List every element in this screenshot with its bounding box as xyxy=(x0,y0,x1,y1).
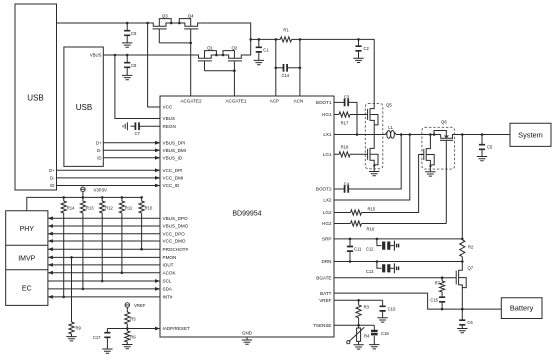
label pin PROCHOT# xyxy=(163,247,189,252)
svg-text:R12: R12 xyxy=(105,206,113,211)
wire VCC_DMI xyxy=(57,176,161,180)
svg-text:R16: R16 xyxy=(367,227,375,232)
wire R1 to ACN node xyxy=(292,38,300,40)
capacitor C7 on REGN xyxy=(123,122,160,136)
svg-text:D-: D- xyxy=(97,148,102,153)
wire Q4 output to node A xyxy=(200,23,251,39)
capacitor C17 xyxy=(93,329,111,350)
block: PHY / IMVP / EC controller stack xyxy=(6,211,48,306)
capacitor C5 xyxy=(479,135,493,157)
transistor Q5 high-side FET xyxy=(368,103,378,135)
wire sense riser xyxy=(461,135,463,239)
svg-text:Q5: Q5 xyxy=(386,103,392,108)
node: R13 to SDA xyxy=(82,288,85,291)
label D- pin of USB block xyxy=(97,148,102,153)
label Q6 xyxy=(441,120,447,125)
wire USB host 5V rail xyxy=(57,22,151,24)
node: C11 top junction xyxy=(349,238,352,241)
label D- pin of USB host xyxy=(50,175,55,180)
label pin VBUS_ID xyxy=(163,156,183,161)
wire Q1-Q2 link xyxy=(216,54,223,56)
node: R7/C15 bottom junction xyxy=(441,308,444,311)
wire Q3 gate lead xyxy=(158,29,160,43)
svg-text:D+: D+ xyxy=(96,140,102,145)
svg-text:ACGATE2: ACGATE2 xyxy=(180,98,202,103)
wire BGATE line xyxy=(334,277,456,279)
resistor R3 xyxy=(356,300,370,325)
transistor Q2 xyxy=(223,45,244,61)
resistor R16 on HG2 xyxy=(334,221,446,232)
svg-text:HG1: HG1 xyxy=(322,112,332,117)
svg-text:C4: C4 xyxy=(344,181,350,186)
label pin ACN xyxy=(294,98,304,103)
wire adapter rail to Q5 drain xyxy=(359,39,375,103)
ground below R4 xyxy=(353,345,363,349)
label pin VBUS_DPO xyxy=(163,216,188,221)
block: Battery xyxy=(501,298,542,319)
capacitor C3 xyxy=(334,95,357,135)
ground below C10 xyxy=(377,318,387,322)
wire R11 pull-up drop xyxy=(121,213,123,273)
svg-text:GND: GND xyxy=(242,331,253,336)
svg-text:C9: C9 xyxy=(131,31,137,36)
label ID pin of USB host xyxy=(50,183,54,188)
svg-text:R18: R18 xyxy=(341,145,349,150)
svg-text:BOOT1: BOOT1 xyxy=(316,100,332,105)
capacitor C11 xyxy=(347,239,362,262)
svg-text:BD99954: BD99954 xyxy=(232,211,261,218)
node: C9 junction xyxy=(126,22,129,25)
wire VCC_DPO xyxy=(48,232,160,236)
svg-text:C8: C8 xyxy=(131,63,137,68)
wire ACN node to C2 xyxy=(300,38,359,40)
node: ACN junction xyxy=(299,38,302,41)
svg-text:VBUS_ID: VBUS_ID xyxy=(163,156,183,161)
svg-text:ID: ID xyxy=(50,183,54,188)
node: VBUS tap junction xyxy=(114,54,117,57)
ground below Q6 xyxy=(425,172,435,176)
wire DRN line xyxy=(334,261,462,263)
wire VBUS_DPI xyxy=(103,141,160,145)
label pin BATT xyxy=(320,291,332,296)
svg-text:C3: C3 xyxy=(344,95,350,100)
ground below R6 xyxy=(122,345,132,349)
svg-text:BATT: BATT xyxy=(320,291,332,296)
label pin BOOT2 xyxy=(316,187,332,192)
node: Q6 source node xyxy=(429,165,431,167)
node: R14 to INT# xyxy=(62,296,65,299)
resistor R2 xyxy=(460,240,474,262)
node: C5 junction xyxy=(481,133,484,136)
svg-text:C7: C7 xyxy=(135,131,141,136)
svg-text:R2: R2 xyxy=(468,244,474,249)
power flag V3P3V xyxy=(81,187,107,197)
label pin ACGATE1 xyxy=(225,98,247,103)
wire BATT line xyxy=(334,293,501,309)
resistor R12 xyxy=(100,197,114,213)
wire V3P3V rail xyxy=(27,197,142,210)
svg-text:VREF: VREF xyxy=(134,303,146,308)
transistor Q6 low-side FET xyxy=(424,135,434,172)
svg-text:C15: C15 xyxy=(430,297,438,302)
node: C13 junction xyxy=(376,260,379,263)
label pin ACGATE2 xyxy=(180,98,202,103)
svg-text:R13: R13 xyxy=(86,206,94,211)
wire Q1/Q2 gate bus xyxy=(205,70,235,72)
resistor R6 xyxy=(125,329,137,345)
node: ACGATE1 gate junction xyxy=(233,69,236,72)
wire VREF line xyxy=(334,299,383,301)
svg-text:Q1: Q1 xyxy=(207,45,213,50)
svg-text:C6: C6 xyxy=(467,320,473,325)
wire adapter node to ACP xyxy=(251,38,281,40)
wire USB VBUS rail xyxy=(103,54,196,56)
ground below C2 xyxy=(353,58,363,62)
wire TSENSE line xyxy=(334,324,374,326)
node A: adapter input node xyxy=(249,38,252,41)
resistor R10 xyxy=(139,197,153,213)
wire R14 pull-up drop xyxy=(63,213,65,297)
svg-text:C11: C11 xyxy=(354,247,362,252)
label pin TSENSE xyxy=(313,323,331,328)
ground below Q5 xyxy=(369,172,379,176)
svg-text:ACN: ACN xyxy=(294,98,304,103)
label pin IADP/RESET xyxy=(163,326,191,331)
ground below C5 xyxy=(477,157,487,161)
svg-text:VBUS_DPO: VBUS_DPO xyxy=(163,216,188,221)
svg-text:R3: R3 xyxy=(364,305,370,310)
wire VBUS pin tap xyxy=(115,55,160,119)
capacitor C15 xyxy=(430,295,445,309)
wire LX2 rail xyxy=(396,134,441,136)
node: C2 junction xyxy=(357,38,360,41)
node: Q7 source junction xyxy=(461,308,464,311)
capacitor C14 xyxy=(276,64,300,78)
wire ACP xyxy=(275,39,277,96)
block: System xyxy=(510,123,551,146)
node: R14 top junction xyxy=(62,196,65,199)
label GND pin xyxy=(242,331,253,336)
ground below C8 xyxy=(122,75,132,79)
node: IADP divider junction xyxy=(126,327,129,330)
svg-text:L1: L1 xyxy=(388,125,393,130)
svg-text:VCC_ID: VCC_ID xyxy=(163,183,181,188)
label pin PMON xyxy=(163,255,177,260)
svg-text:SRP: SRP xyxy=(322,237,331,242)
wire VCC tap vertical xyxy=(148,23,160,107)
wire ACGATE1 xyxy=(233,71,235,96)
label pin BGATE xyxy=(316,275,331,280)
svg-text:Q4: Q4 xyxy=(188,13,194,18)
svg-text:ACOK: ACOK xyxy=(163,270,177,275)
svg-text:ACP: ACP xyxy=(270,98,279,103)
wire R13 pull-up drop xyxy=(82,213,84,289)
node: R10 to PROCHOT# xyxy=(140,248,143,251)
ground at IC GND pin xyxy=(242,337,252,344)
node: R11 to ACOK xyxy=(121,271,124,274)
svg-text:V3P3V: V3P3V xyxy=(94,187,108,192)
svg-text:INT#: INT# xyxy=(163,295,173,300)
node: LX2 riser junction xyxy=(409,133,412,136)
label pin SDA xyxy=(163,287,173,292)
svg-text:C10: C10 xyxy=(388,306,396,311)
capacitor C1 xyxy=(256,39,270,60)
node: C12 junction xyxy=(376,238,379,241)
svg-text:R11: R11 xyxy=(125,206,133,211)
label Q5 xyxy=(386,103,392,108)
label pin HG1 xyxy=(322,112,332,117)
svg-text:VBUS: VBUS xyxy=(90,53,102,58)
wire ACOK xyxy=(48,271,160,275)
wire VBUS_DMI xyxy=(103,148,160,152)
svg-text:C13: C13 xyxy=(366,269,374,274)
ground below C1 xyxy=(254,60,264,64)
resistor R5 xyxy=(125,312,137,329)
node: Q6 low FET drain junction xyxy=(429,133,432,136)
capacitor C10 xyxy=(380,300,396,318)
capacitor C8 xyxy=(124,55,137,75)
transistor Q3 xyxy=(151,13,171,29)
svg-text:VCC_DPO: VCC_DPO xyxy=(163,231,186,236)
node: ACGATE2 gate junction xyxy=(189,42,192,45)
wire R10 pull-up drop xyxy=(141,213,143,249)
power flag VREF xyxy=(125,303,146,312)
svg-text:SCL: SCL xyxy=(163,279,172,284)
label pin SCL xyxy=(163,279,172,284)
IC U1 BD99954 body xyxy=(160,96,334,337)
svg-text:ACGATE1: ACGATE1 xyxy=(225,98,247,103)
dashed outline Q6 package xyxy=(422,127,455,169)
wire IADP/RESET xyxy=(107,327,160,331)
svg-text:R7: R7 xyxy=(435,281,441,286)
label ID pin of USB block xyxy=(97,155,101,160)
wire Q2 output to node A xyxy=(244,39,251,55)
node: Q3-Q4 junction b xyxy=(178,22,181,25)
node: C14 left junction xyxy=(275,67,278,70)
wire ACGATE2 xyxy=(190,43,192,96)
resistor R15 on LG2 xyxy=(334,155,424,216)
label pin VCC_ID xyxy=(163,183,181,188)
ground below C17 xyxy=(102,349,112,353)
svg-text:R17: R17 xyxy=(341,120,349,125)
node: C11 bottom junction xyxy=(349,260,352,263)
node: R3 top junction xyxy=(357,299,360,302)
transistor Q7 xyxy=(456,262,474,310)
ground below R9 xyxy=(66,337,76,341)
svg-text:DRN: DRN xyxy=(322,259,332,264)
resistor R14 xyxy=(61,197,75,213)
label D+ pin of USB block xyxy=(96,140,102,145)
label BD99954 xyxy=(232,211,261,218)
inductor L1 xyxy=(385,125,396,138)
node: sense riser junction xyxy=(461,133,464,136)
svg-text:VCC_DMI: VCC_DMI xyxy=(163,176,184,181)
svg-text:LX2: LX2 xyxy=(323,198,332,203)
label pin REGN xyxy=(163,124,176,129)
svg-text:R10: R10 xyxy=(145,206,153,211)
svg-text:USB: USB xyxy=(27,93,43,102)
wire VCC_ID xyxy=(57,184,161,188)
wire Q3-Q4 link xyxy=(171,22,179,24)
capacitor C9 xyxy=(124,23,137,43)
svg-text:LX1: LX1 xyxy=(323,132,332,137)
svg-text:R1: R1 xyxy=(283,28,289,33)
resistor R11 xyxy=(119,197,133,213)
svg-text:BOOT2: BOOT2 xyxy=(316,187,332,192)
svg-text:VCC_DPI: VCC_DPI xyxy=(163,168,183,173)
svg-text:IOUT: IOUT xyxy=(163,263,174,268)
label pin VBUS_DMI xyxy=(163,148,187,153)
svg-text:Q6: Q6 xyxy=(441,120,447,125)
node: R12 top junction xyxy=(101,196,104,199)
svg-text:R9: R9 xyxy=(76,326,82,331)
node: R12 to SCL xyxy=(101,280,104,283)
node: Q5 source node xyxy=(373,165,375,167)
wire SCL xyxy=(48,279,160,283)
node: ACP junction xyxy=(275,38,278,41)
svg-text:VCC_DMO: VCC_DMO xyxy=(163,239,186,244)
svg-text:USB: USB xyxy=(76,103,92,112)
svg-text:VBUS_DMI: VBUS_DMI xyxy=(163,148,187,153)
node: thermistor junction xyxy=(357,324,360,327)
wire VBUS_ID xyxy=(103,156,160,160)
label pin VREF xyxy=(319,298,331,303)
label pin LG2 xyxy=(323,210,332,215)
svg-text:ID: ID xyxy=(97,155,101,160)
wire ACN xyxy=(299,39,301,96)
label pin HG2 xyxy=(322,221,332,226)
svg-text:Battery: Battery xyxy=(510,304,534,313)
svg-text:VBUS_DPI: VBUS_DPI xyxy=(163,141,186,146)
node: R13 top junction xyxy=(82,196,85,199)
wire SDA xyxy=(48,287,160,291)
wire Q2 gate lead xyxy=(233,61,235,71)
label pin VCC_DPI xyxy=(163,168,183,173)
wire Q3/Q4 gate bus xyxy=(159,42,190,44)
transistor Q4 xyxy=(179,13,200,29)
wire LX2 pin riser xyxy=(334,135,410,201)
wire VBUS_DPO xyxy=(48,216,160,220)
svg-text:C5: C5 xyxy=(487,145,493,150)
capacitor C6 xyxy=(459,309,473,328)
svg-text:C14: C14 xyxy=(281,73,289,78)
capacitor C4 xyxy=(334,135,401,193)
svg-text:VBUS_DMO: VBUS_DMO xyxy=(163,224,189,229)
svg-text:IMVP: IMVP xyxy=(18,256,35,263)
wire R12 pull-up drop xyxy=(101,213,103,281)
resistor R17 on HG1 xyxy=(334,112,368,125)
svg-text:IADP/RESET: IADP/RESET xyxy=(163,326,191,331)
svg-text:Q7: Q7 xyxy=(468,266,474,271)
node: Q1-Q2 junction a xyxy=(215,54,218,57)
label pin ACP xyxy=(270,98,279,103)
transistor Q1 xyxy=(196,45,216,61)
wire SRP line xyxy=(334,238,462,240)
wire LX1 xyxy=(334,134,385,136)
node: BOOT2 riser junction xyxy=(400,133,403,136)
wire system rail xyxy=(462,134,510,136)
ground below C6 xyxy=(457,329,467,333)
svg-text:Q2: Q2 xyxy=(231,45,237,50)
svg-text:D+: D+ xyxy=(49,168,55,173)
label pin VCC_DMI xyxy=(163,176,184,181)
node: Q6 staple junction xyxy=(433,133,436,136)
svg-text:Q3: Q3 xyxy=(162,13,168,18)
label pin VBUS_DPI xyxy=(163,141,186,146)
svg-text:BGATE: BGATE xyxy=(316,275,331,280)
transistor Q5 low-side FET xyxy=(368,135,378,172)
label pin LX1 xyxy=(323,132,332,137)
resistor R18 on LG1 xyxy=(334,145,368,157)
wire Q1 gate lead xyxy=(204,61,206,71)
svg-text:EC: EC xyxy=(22,286,32,293)
node: R9 to PMON xyxy=(70,256,73,259)
thermistor R4 xyxy=(347,325,370,345)
node: C1 junction xyxy=(258,38,261,41)
svg-text:PMON: PMON xyxy=(163,255,177,260)
capacitor C13 xyxy=(366,262,399,275)
svg-text:R5: R5 xyxy=(130,317,136,322)
label pin BOOT1 xyxy=(316,100,332,105)
block: USB device xyxy=(64,47,103,166)
label pin DRN xyxy=(322,259,332,264)
capacitor C12 xyxy=(366,239,399,252)
wire VBUS_DMO xyxy=(48,224,160,228)
svg-text:VREF: VREF xyxy=(319,298,331,303)
label pin ACOK xyxy=(163,270,177,275)
svg-text:R4: R4 xyxy=(364,334,370,339)
node: SRP sense junction xyxy=(461,238,464,241)
svg-text:TSENSE: TSENSE xyxy=(313,323,331,328)
node: C8 junction xyxy=(126,54,129,57)
node: BOOT1 bootstrap junction xyxy=(356,133,359,136)
label pin VBUS_DMO xyxy=(163,224,189,229)
label pin IOUT xyxy=(163,263,174,268)
label VBUS pin of USB block xyxy=(90,53,102,58)
label pin VCC xyxy=(163,105,173,110)
svg-text:R6: R6 xyxy=(130,335,136,340)
block: USB host connector xyxy=(15,4,57,190)
svg-text:R14: R14 xyxy=(67,206,75,211)
node: R11 top junction xyxy=(121,196,124,199)
resistor R1 xyxy=(280,28,291,43)
svg-text:System: System xyxy=(518,130,543,139)
node: C14 right junction xyxy=(299,67,302,70)
node: Q1-Q2 junction b xyxy=(222,54,225,57)
wire IOUT xyxy=(48,263,160,267)
label pin SRP xyxy=(322,237,331,242)
capacitor C2 xyxy=(355,39,369,58)
svg-text:C18: C18 xyxy=(381,331,389,336)
svg-text:R15: R15 xyxy=(368,206,376,211)
wire PROCHOT# xyxy=(48,247,160,251)
dashed outline Q5 package xyxy=(365,103,383,168)
label pin VBUS xyxy=(163,116,176,121)
svg-text:PHY: PHY xyxy=(20,226,35,233)
label pin VCC_DPO xyxy=(163,231,186,236)
node: R10 top junction xyxy=(140,196,143,199)
node: VCC tap junction xyxy=(146,22,149,25)
node: R7 top junction xyxy=(441,276,444,279)
resistor R9 xyxy=(69,257,82,336)
node: DRN sense junction xyxy=(461,260,464,263)
svg-text:C1: C1 xyxy=(263,47,269,52)
label pin INT# xyxy=(163,295,173,300)
svg-text:D-: D- xyxy=(50,175,55,180)
svg-text:HG2: HG2 xyxy=(322,221,332,226)
svg-text:REGN: REGN xyxy=(163,124,176,129)
svg-text:SDA: SDA xyxy=(163,287,173,292)
